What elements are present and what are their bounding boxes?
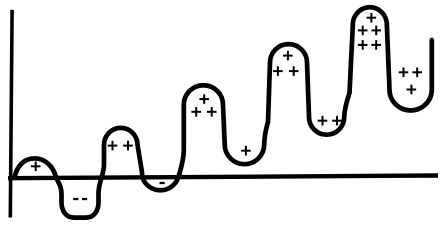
vertical axis (10, 10, 12, 218)
plus signs dip 4 (318, 116, 328, 126)
plus sign hump 1 (31, 162, 41, 172)
horizontal baseline (8, 176, 438, 179)
plus signs hump 2 (108, 141, 118, 151)
plus signs hump 3 (199, 94, 209, 104)
plus signs hump 4 (283, 51, 293, 61)
plus signs dip 5 (399, 68, 409, 78)
minus signs dip 1 (73, 198, 78, 200)
plus signs hump 5 (367, 13, 377, 23)
minus sign dip 2 (160, 182, 165, 184)
plus sign dip 3 (241, 146, 251, 156)
